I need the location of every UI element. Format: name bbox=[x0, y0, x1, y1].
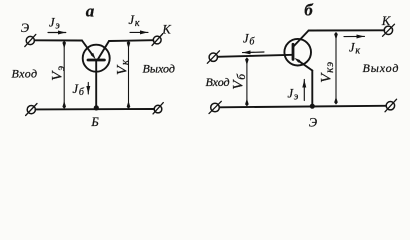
current arrow I_э (up) bbox=[303, 80, 305, 101]
svg-text:Vб: Vб bbox=[231, 73, 248, 90]
wire: emitter terminal to transistor bbox=[34, 39, 82, 41]
current arrow I_к bbox=[344, 35, 365, 37]
input terminal (base) bbox=[209, 53, 217, 61]
wire: input to base bbox=[218, 55, 293, 57]
svg-text:а: а bbox=[86, 2, 95, 21]
voltage line V_к bbox=[128, 43, 130, 108]
svg-text:Jб: Jб bbox=[243, 32, 255, 48]
svg-text:Jэ: Jэ bbox=[288, 87, 299, 103]
svg-text:Вход: Вход bbox=[12, 67, 38, 81]
current arrow I_б (left) bbox=[243, 51, 265, 54]
current arrow I_к bbox=[130, 31, 148, 33]
svg-text:Вход: Вход bbox=[206, 75, 230, 89]
voltage line V_э bbox=[63, 43, 65, 108]
svg-text:Выход: Выход bbox=[143, 62, 175, 76]
terminal К (top-right output) bbox=[153, 36, 161, 44]
junction dot Б bbox=[94, 105, 99, 110]
terminal bottom-right bbox=[386, 102, 394, 110]
current arrow I_б (down) bbox=[87, 83, 89, 95]
svg-text:Jб: Jб bbox=[73, 82, 85, 98]
terminal bottom-right bbox=[154, 105, 162, 113]
svg-text:Э: Э bbox=[309, 116, 317, 130]
collector lead bbox=[293, 31, 308, 47]
transistor base bar bbox=[88, 59, 104, 62]
collector lead bbox=[98, 41, 109, 60]
svg-text:Jк: Jк bbox=[129, 13, 140, 29]
base lead down to rail bbox=[95, 60, 97, 109]
svg-text:К: К bbox=[381, 14, 391, 28]
terminal bottom-left bbox=[27, 106, 35, 114]
transistor VT1 circle bbox=[83, 45, 110, 72]
voltage line V_кэ bbox=[335, 34, 337, 103]
svg-text:б: б bbox=[304, 1, 314, 20]
bottom rail bbox=[220, 106, 386, 108]
svg-text:Jэ: Jэ bbox=[49, 16, 60, 32]
terminal К (top-right) bbox=[384, 26, 392, 34]
svg-text:Выход: Выход bbox=[363, 61, 400, 75]
svg-text:Б: Б bbox=[90, 115, 99, 129]
svg-text:К: К bbox=[161, 22, 171, 36]
terminal bottom-left bbox=[211, 103, 220, 112]
bottom rail bbox=[35, 108, 154, 110]
svg-text:Vэ: Vэ bbox=[50, 65, 67, 81]
wire: collector to K terminal bbox=[109, 39, 153, 42]
emitter vertical to rail bbox=[311, 71, 313, 107]
svg-text:Vкэ: Vкэ bbox=[319, 61, 336, 83]
emitter lead with PNP arrow bbox=[82, 41, 92, 55]
svg-text:Vк: Vк bbox=[115, 59, 132, 75]
svg-text:Jк: Jк bbox=[349, 41, 360, 57]
emitter lead with PNP arrow bbox=[299, 61, 313, 71]
top rail to К bbox=[309, 29, 385, 31]
transistor base bar (vertical) bbox=[292, 44, 295, 59]
svg-text:Э: Э bbox=[21, 21, 29, 35]
current arrow I_э bbox=[48, 32, 66, 34]
voltage line V_б bbox=[246, 59, 248, 105]
junction dot Э bbox=[310, 104, 315, 109]
transistor VT2 circle bbox=[284, 39, 311, 66]
terminal Э (top-left input) bbox=[26, 36, 34, 44]
